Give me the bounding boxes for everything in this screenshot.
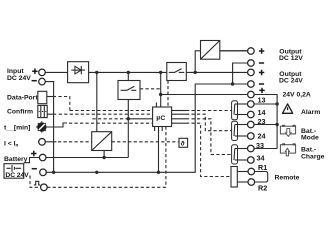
svg-text:Mode: Mode [301,135,319,142]
terminal number labels [256,95,267,192]
thermometer box [179,138,188,147]
pulse symbol [34,181,40,185]
connector Data-Port box [38,91,47,103]
wire aux plus to contact bus [254,95,277,149]
wire uC bottom stubs [155,127,163,132]
wire input minus down to 0V rail [45,82,53,173]
diode V1 symbol [71,66,85,74]
alarm warning triangle [283,104,293,113]
wire remote jumper [255,172,268,183]
wire main 24V rail [89,71,167,73]
node junction 12V converter feed [194,71,197,74]
terminal R2 [248,179,255,186]
terminal 23 [248,121,255,128]
wire pot to step [47,123,67,127]
terminal input plus [39,69,46,76]
node junction diode/charger [95,71,98,74]
relay contact K1 [232,101,248,120]
wire S2 control dashed to uC [167,81,169,108]
wire uC gnd [158,127,160,173]
wire 23 to bus [254,124,277,126]
node junction charger drop on rail [95,171,98,174]
relay contact K3 [232,145,248,164]
svg-text:33: 33 [256,141,264,150]
terminal DC12V minus [248,60,255,67]
terminal battery plus [39,154,46,161]
wire 12V converter output [220,50,248,52]
wire S1 to battery line [127,100,129,158]
svg-text:R2: R2 [258,184,267,193]
svg-text:13: 13 [258,95,266,104]
terminal 24 [248,133,255,140]
node junction bus3 tap [127,117,130,120]
converter DC/DC 12V box [201,41,220,60]
wire 12V output to terminal [220,50,248,52]
svg-text:Remote: Remote [275,174,300,181]
battery mode icon [280,125,295,137]
svg-text:DC 12V: DC 12V [279,55,303,62]
node Input label [7,68,38,82]
wire charger output stub [103,151,105,158]
svg-text:23: 23 [258,117,266,126]
wire 33 to bus [254,148,277,150]
node junction charger/battery [102,156,105,159]
svg-text:24: 24 [258,131,266,140]
terminal 33 [248,145,255,152]
terminal 34 [248,157,255,164]
switch S1 box [118,81,140,100]
terminal pulse output [41,184,48,191]
potentiometer t[min] [36,121,48,133]
node junction minus outputs [231,82,234,85]
wire uC right pin2 dashed to contact K2 [172,113,186,115]
wire battery plus line [46,157,128,159]
terminal R1 [248,168,255,175]
wire input plus to diode [45,71,67,73]
wire charger input drop [96,72,98,131]
svg-text:Charge: Charge [301,153,325,160]
svg-text:14: 14 [258,108,266,117]
converter 12V diagonal [201,41,220,60]
remote input block [231,167,248,188]
terminal battery minus [40,169,47,176]
svg-text:I < In: I < In [4,141,19,148]
terminal DC12V plus [248,48,255,55]
wire bus4 dashed to uC [69,122,153,124]
wire battery box to plus [24,158,40,163]
wire uC right pin1 dashed to contact K1 [172,110,186,112]
node junction uC feed [159,71,162,74]
wire uC top stub [155,103,157,108]
wire bus1 dashed Data-Port to uC [70,110,153,112]
wire I<In dashed to charger [45,141,56,143]
svg-text:Confirm: Confirm [7,109,33,116]
terminal 24V aux plus [248,91,255,98]
battery box [4,164,29,179]
wire 13 to bus [254,103,277,105]
terminal 13 [248,101,255,108]
wire uC right pin3 dashed to contact K3 [172,118,186,120]
charger diagonal [92,132,112,151]
wire uC right pin4 dashed to remote block [172,122,186,124]
wire 0V rail [46,84,247,172]
wire 24V 0,2A line [161,94,248,96]
wire uC to pulse output dashed [165,127,167,188]
wire 12V converter input [195,51,200,73]
svg-text:ϑ: ϑ [181,141,185,148]
svg-text:Alarm: Alarm [301,109,320,116]
switch S2 contact [169,69,185,73]
node junction input minus on rail [52,171,55,174]
svg-text:C: C [160,115,165,122]
svg-text:DC 24V: DC 24V [7,75,31,82]
charger DC/DC box [92,132,112,151]
node junction switch S1 [127,71,130,74]
microcontroller uC box [153,107,172,127]
svg-text:DC 24V: DC 24V [5,172,29,179]
wire Data-Port line [47,96,56,98]
battery charge icon [280,143,295,156]
output labels [259,48,311,98]
wire S1 control dashed [140,88,161,90]
switch S2 box [167,63,187,81]
relay contact K2 [232,121,248,140]
terminal 14 [248,111,255,118]
svg-text:34: 34 [257,154,265,163]
svg-text:Data-Port: Data-Port [7,94,38,101]
wire uC power drop [160,72,162,107]
terminal DC24V plus [248,69,255,76]
switch S1 contact [121,72,137,90]
wire bus3 dashed tap to uC [93,118,127,120]
terminal DC24V minus [248,81,255,88]
wire 12V minus join [233,63,248,84]
node junction uC gnd on rail [157,171,160,174]
wire pulse output dashed [30,176,40,188]
wire Confirm line [47,113,56,115]
svg-text:24V 0,2A: 24V 0,2A [283,91,311,98]
connector Confirm box [38,105,47,117]
svg-text:R1: R1 [258,163,267,172]
svg-text:t__[min]: t__[min] [4,125,30,132]
wire pulse dashed to uC [47,186,166,188]
svg-text:DC 24V: DC 24V [279,78,303,85]
svg-text:Bat.-: Bat.- [301,146,316,153]
node junction 24V aux tap [159,93,162,96]
wire charger to thermometer dashed [112,141,179,143]
terminal input minus [39,78,46,85]
diode V1 box [68,62,89,83]
terminal I<In [39,139,46,146]
